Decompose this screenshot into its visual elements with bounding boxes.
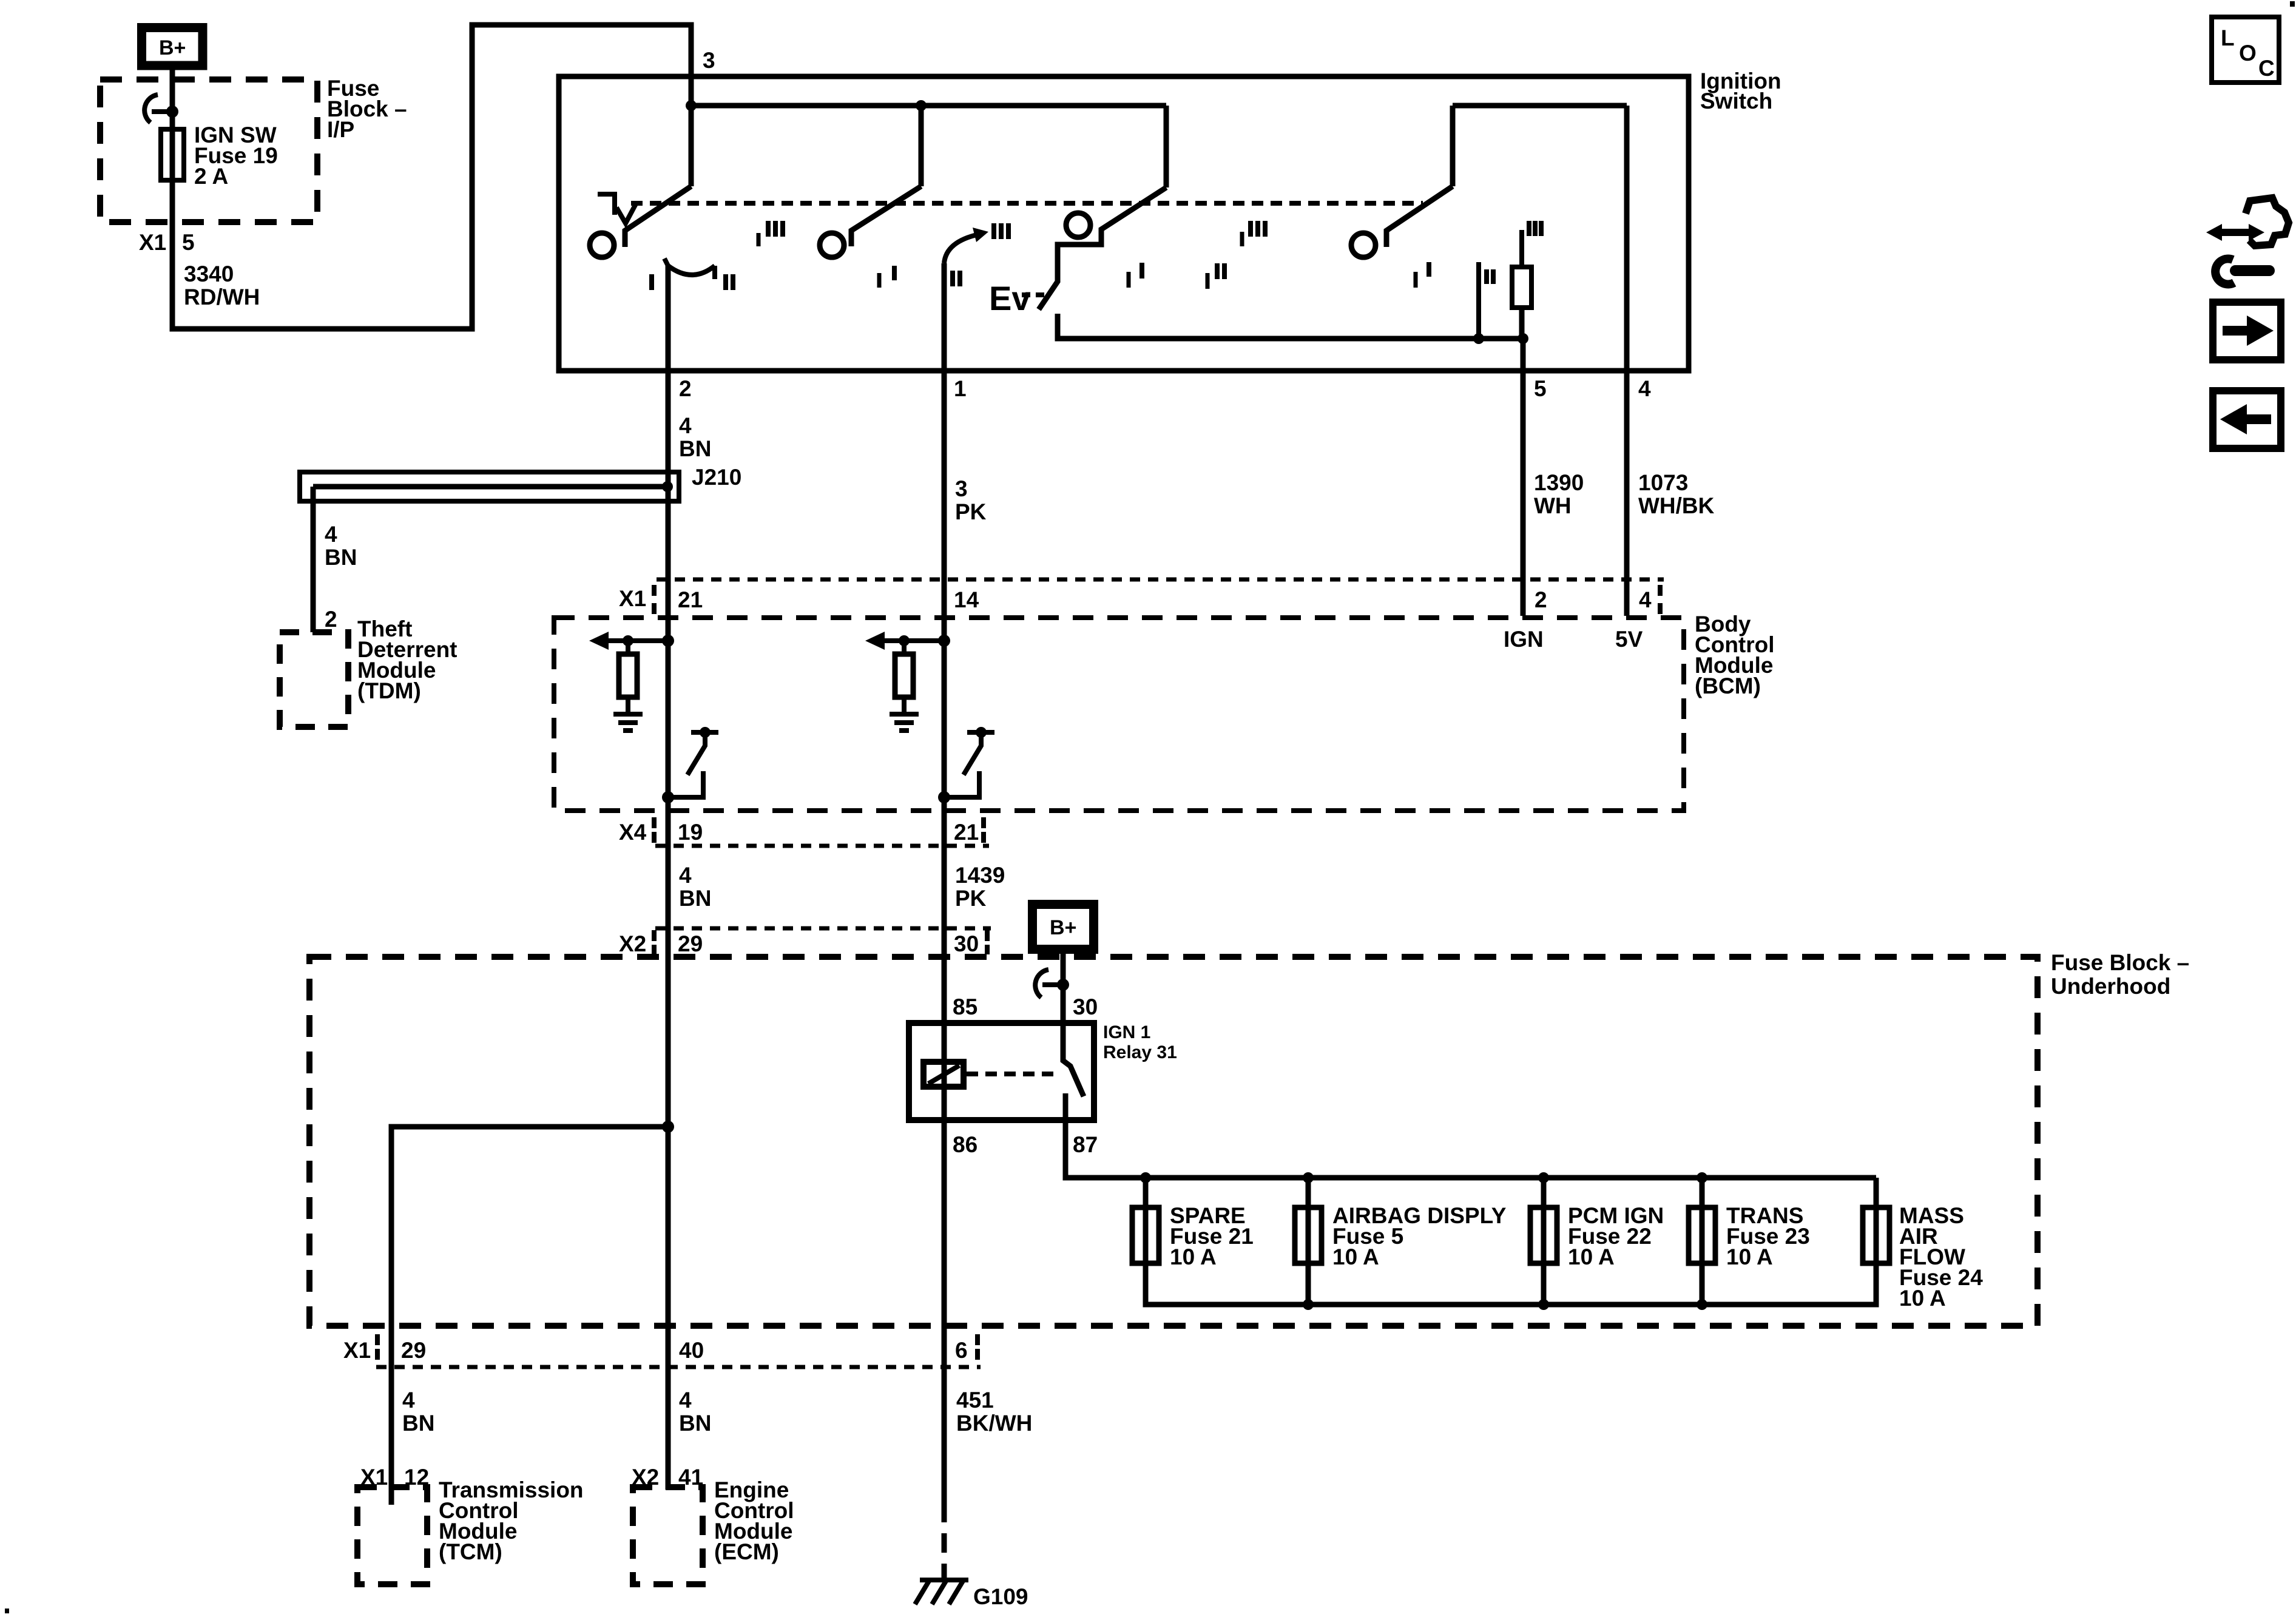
wire fuse 22 feed — [1541, 1178, 1547, 1305]
svg-text:21: 21 — [954, 820, 979, 845]
node junction switch2 feed — [916, 100, 927, 111]
connector label X1 pin 5 — [139, 230, 195, 255]
svg-text:BN: BN — [325, 545, 357, 570]
position ticks II (S2) — [953, 271, 960, 286]
svg-text:4: 4 — [325, 522, 337, 547]
wire fuse 21 feed — [1143, 1178, 1149, 1305]
svg-text:4: 4 — [679, 413, 692, 438]
node fuse 5 output — [1303, 1299, 1314, 1310]
switch S3 feed wire — [1164, 106, 1169, 187]
wire resistor to bottom bus — [1519, 308, 1525, 339]
wire label 1390 WH (pin 5) — [1534, 470, 1584, 518]
key-lock symbol at S1 — [598, 194, 636, 223]
svg-text:40: 40 — [679, 1338, 704, 1363]
LOC legend box — [2212, 17, 2279, 83]
svg-text:30: 30 — [1073, 994, 1098, 1019]
svg-text:14: 14 — [954, 587, 979, 612]
wire fuse 24 feed — [1874, 1178, 1879, 1305]
position ticks I (S4) — [1416, 262, 1429, 288]
svg-text:21: 21 — [678, 587, 703, 612]
node fuse 23 tap — [1697, 1172, 1707, 1183]
svg-text:3: 3 — [703, 48, 715, 73]
wire label 4 BN (ECM) — [679, 1388, 711, 1436]
svg-text:Ev: Ev — [989, 279, 1031, 317]
label MASS AIR FLOW Fuse 24 10 A — [1899, 1203, 1983, 1311]
connector tick X1 right — [1658, 585, 1663, 614]
fuse IGN SW Fuse 19 2A — [161, 129, 184, 180]
wire label 3 PK (pin 1) — [955, 476, 987, 524]
svg-text:X4: X4 — [619, 820, 647, 845]
wire 451 BK/WH dashed to ground — [942, 1503, 947, 1581]
svg-text:87: 87 — [1073, 1132, 1098, 1157]
label PCM IGN Fuse 22 10 A — [1568, 1203, 1664, 1269]
signal ground (pin 14 circuit) — [890, 714, 919, 731]
svg-text:(BCM): (BCM) — [1695, 673, 1761, 698]
back-arrow legend box — [2213, 391, 2281, 448]
node junction pin3 bus — [686, 100, 697, 111]
relay IGN 1 Relay 31 box — [909, 1023, 1094, 1120]
label Engine Control Module (ECM) — [714, 1477, 794, 1564]
svg-text:5V: 5V — [1615, 627, 1643, 652]
clip connector below B+ — [1035, 970, 1069, 998]
BCM pull-up resistor (pin 14) — [895, 641, 913, 714]
svg-text:4: 4 — [679, 863, 692, 888]
wire ignition pin 1 (down from S2 arc) — [942, 263, 947, 1503]
wire fuse 23 output — [1700, 1263, 1705, 1305]
label Fuse Block - Underhood — [2051, 950, 2189, 999]
switch S3 blade (accessory stage) — [1039, 187, 1166, 309]
svg-text:2: 2 — [325, 607, 337, 632]
svg-text:10 A: 10 A — [1726, 1244, 1773, 1269]
mechanical linkage dashed line — [631, 201, 1423, 206]
svg-text:C: C — [2258, 56, 2275, 81]
wire branch to TCM — [391, 1127, 668, 1505]
node fuse 22 tap — [1538, 1172, 1549, 1183]
label Theft Deterrent Module (TDM) — [357, 616, 458, 703]
position ticks II (S4) — [1487, 269, 1493, 284]
relay switch blade — [1063, 1023, 1084, 1120]
forward-arrow legend box — [2213, 302, 2281, 360]
svg-text:29: 29 — [401, 1338, 426, 1363]
connector tick X1 bottom left — [375, 1334, 380, 1360]
svg-text:Relay 31: Relay 31 — [1103, 1042, 1177, 1062]
svg-text:X1: X1 — [139, 230, 166, 255]
position ticks I (S2) — [879, 266, 894, 288]
spring-return arc S2 with arrow — [944, 228, 988, 263]
BCM connector X1 strip line — [657, 578, 1664, 582]
wire fuse 22 output — [1541, 1263, 1547, 1305]
switch S4 pivot wire — [1450, 106, 1456, 186]
label TCM connector X1 12 — [360, 1465, 429, 1490]
wire B+ to relay pin 30 — [1061, 952, 1066, 1023]
position ticks III (S2) — [994, 223, 1008, 239]
wire label 4 BN (TCM) — [402, 1388, 434, 1436]
svg-text:BN: BN — [679, 886, 711, 911]
svg-text:(ECM): (ECM) — [714, 1539, 779, 1564]
position ticks III (S4) — [1529, 221, 1541, 236]
svg-text:WH: WH — [1534, 493, 1572, 518]
node branch junction — [662, 1121, 674, 1133]
switch S2 blade — [851, 186, 921, 246]
svg-text:(TCM): (TCM) — [439, 1539, 502, 1564]
svg-text:6: 6 — [955, 1338, 968, 1363]
vehicle-with-wrench icon — [2206, 198, 2289, 284]
transmission control module box — [357, 1487, 427, 1584]
wire ignition pin 5 — [1521, 339, 1526, 616]
svg-text:4: 4 — [1638, 376, 1651, 401]
detent arc S1 — [664, 258, 715, 279]
resistor inside ignition switch (S4 position III) — [1512, 267, 1531, 308]
relay dashed actuation link — [967, 1072, 1061, 1076]
svg-text:1390: 1390 — [1534, 470, 1584, 495]
wire fuse 5 output — [1306, 1263, 1311, 1305]
wire internal bus from pin 3 — [691, 103, 1166, 109]
label AIRBAG DISPLY Fuse 5 10 A — [1332, 1203, 1507, 1269]
svg-text:X1: X1 — [619, 586, 646, 611]
signal ground (pin 21 circuit) — [613, 714, 643, 731]
svg-text:BN: BN — [402, 1411, 434, 1436]
connector tick X1 bottom right — [975, 1334, 980, 1360]
fuse output bus — [1146, 1263, 1876, 1305]
switch S4 contact circle — [1351, 233, 1376, 257]
label Body Control Module (BCM) — [1695, 612, 1775, 698]
svg-text:5: 5 — [1534, 376, 1547, 401]
svg-text:3340: 3340 — [184, 262, 234, 286]
svg-text:Switch: Switch — [1700, 89, 1772, 113]
connector tick X4 right — [981, 817, 986, 843]
fuse block bottom X1 strip line — [376, 1365, 981, 1369]
switch S1 feed wire — [689, 106, 694, 186]
svg-text:10 A: 10 A — [1568, 1244, 1615, 1269]
svg-text:IGN: IGN — [1504, 627, 1544, 652]
svg-text:29: 29 — [678, 931, 703, 956]
svg-text:BN: BN — [679, 436, 711, 461]
svg-text:PK: PK — [955, 499, 987, 524]
label Transmission Control Module (TCM) — [439, 1477, 584, 1564]
fuse 24 MASS AIR FLOW — [1863, 1207, 1889, 1263]
position ticks II (S3) — [1207, 263, 1224, 289]
svg-text:86: 86 — [953, 1132, 977, 1157]
S3 output wire to internal bottom bus — [1058, 314, 1523, 339]
BCM internal output arrow (pin 21 circuit) — [589, 632, 674, 650]
wire 3340 RD/WH from fuse 19 to ignition switch pin 3 — [172, 25, 691, 329]
BCM connector X4 strip line — [655, 844, 989, 848]
connector tick X1 left — [652, 585, 657, 614]
svg-text:BN: BN — [679, 1411, 711, 1436]
svg-text:30: 30 — [954, 931, 979, 956]
svg-text:10 A: 10 A — [1899, 1286, 1946, 1311]
switch S1 blade — [625, 186, 691, 247]
svg-text:BK/WH: BK/WH — [956, 1411, 1032, 1436]
wire label 4 BN (pin 2) — [679, 413, 711, 461]
BCM internal output arrow (pin 14 circuit) — [865, 632, 950, 650]
label SPARE Fuse 21 10 A — [1170, 1203, 1254, 1269]
svg-text:19: 19 — [678, 820, 703, 845]
svg-text:(TDM): (TDM) — [357, 678, 421, 703]
label Ignition Switch — [1700, 69, 1781, 113]
page mark bottom left — [5, 1609, 9, 1613]
label Fuse Block - I/P — [327, 76, 407, 142]
label 3340 RD/WH — [184, 262, 260, 309]
BCM pull-up resistor (pin 21) — [619, 641, 637, 714]
BCM internal switch (pin 14 circuit) — [938, 727, 994, 803]
connector tick X2 right — [985, 930, 990, 954]
switch S4 top feed — [1453, 103, 1627, 109]
position III contact line (S4) — [1519, 230, 1524, 267]
node junction S4-II on bottom bus — [1473, 333, 1484, 344]
power symbol B+ (underhood feed) — [1033, 905, 1094, 950]
node fuse 23 output — [1697, 1299, 1707, 1310]
fuse 5 AIRBAG DISPLY — [1295, 1207, 1322, 1263]
svg-text:B+: B+ — [1050, 916, 1076, 939]
svg-text:451: 451 — [956, 1388, 994, 1413]
svg-text:B+: B+ — [159, 36, 186, 59]
connector tick X2 left — [652, 930, 657, 954]
wire fuse 23 feed — [1700, 1178, 1705, 1305]
connector tick X4 left — [652, 817, 657, 843]
svg-text:2 A: 2 A — [194, 164, 228, 189]
fuse block I/P dashed box — [100, 79, 317, 222]
svg-text:PK: PK — [955, 886, 987, 911]
svg-text:1439: 1439 — [955, 863, 1005, 888]
theft deterrent module box — [280, 632, 348, 727]
svg-text:G109: G109 — [973, 1584, 1028, 1609]
wire label 1439 PK — [955, 863, 1005, 911]
position II contact line (S4) — [1476, 262, 1481, 339]
wire label 4 BN (below X4) — [679, 863, 711, 911]
svg-text:L: L — [2221, 25, 2235, 50]
svg-text:10 A: 10 A — [1170, 1244, 1217, 1269]
svg-text:3: 3 — [955, 476, 968, 501]
wire 4 BN branch to TDM — [311, 487, 316, 632]
fuse 21 SPARE — [1132, 1207, 1159, 1263]
svg-text:5: 5 — [182, 230, 195, 255]
svg-text:Underhood: Underhood — [2051, 974, 2170, 999]
body control module box — [554, 618, 1684, 811]
page mark top right — [2290, 1, 2295, 7]
wire fuse 5 feed — [1306, 1178, 1311, 1305]
ground G109 symbol — [915, 1580, 968, 1604]
fuse 22 PCM IGN — [1530, 1207, 1557, 1263]
wire label 1073 WH/BK (pin 4) — [1638, 470, 1715, 518]
fuse 23 TRANS — [1689, 1207, 1715, 1263]
svg-text:4: 4 — [1639, 587, 1652, 612]
svg-text:WH/BK: WH/BK — [1638, 493, 1715, 518]
dashed link Ev to S3 lower blade — [1022, 292, 1044, 297]
node fuse 21 tap — [1140, 1172, 1151, 1183]
power symbol B+ (fuse block I/P feed) — [142, 28, 203, 66]
svg-text:O: O — [2239, 41, 2257, 66]
label ECM connector X2 41 — [632, 1465, 703, 1490]
svg-text:4: 4 — [402, 1388, 415, 1413]
fuse block X2 strip line — [655, 927, 991, 931]
svg-text:X2: X2 — [619, 931, 646, 956]
svg-text:1073: 1073 — [1638, 470, 1688, 495]
label IGN SW Fuse 19 2A — [194, 123, 278, 189]
switch S2 contact circle — [820, 233, 844, 257]
svg-text:I/P: I/P — [327, 117, 354, 142]
svg-text:2: 2 — [1535, 587, 1547, 612]
fuse block underhood box — [309, 957, 2038, 1326]
svg-text:1: 1 — [954, 376, 967, 401]
position ticks I (S3) — [1129, 263, 1142, 288]
wire ignition pin 4 — [1624, 106, 1630, 616]
switch S4 blade — [1386, 186, 1453, 247]
relay coil — [923, 1062, 964, 1087]
wire label 4 BN (TDM branch) — [325, 522, 357, 570]
svg-text:RD/WH: RD/WH — [184, 285, 260, 309]
BCM internal switch (pin 21 circuit) — [662, 727, 718, 803]
svg-text:2: 2 — [679, 376, 692, 401]
svg-text:4: 4 — [679, 1388, 692, 1413]
clip connector at fuse 19 — [144, 95, 178, 123]
switch S1 contact circle — [590, 233, 614, 257]
label TRANS Fuse 23 10 A — [1726, 1203, 1810, 1269]
position ticks III (S1) — [758, 221, 783, 246]
node fuse 22 output — [1538, 1299, 1549, 1310]
svg-text:X1: X1 — [343, 1338, 371, 1363]
splice J210 — [300, 472, 679, 501]
svg-text:85: 85 — [953, 994, 977, 1019]
label IGN 1 Relay 31 — [1103, 1022, 1177, 1062]
svg-text:J210: J210 — [692, 465, 741, 490]
switch S2 feed wire — [919, 106, 924, 186]
wire ignition pin 2 (down from S1 arc) — [666, 266, 671, 1490]
svg-text:Fuse Block –: Fuse Block – — [2051, 950, 2189, 975]
engine control module box — [633, 1487, 703, 1584]
position ticks II (S1) — [726, 274, 733, 290]
position ticks III (S3) — [1242, 221, 1265, 246]
node fuse 5 tap — [1303, 1172, 1314, 1183]
switch S3 contact circle — [1066, 213, 1090, 237]
ignition switch box — [559, 76, 1689, 371]
wire relay 87 to fuse bus — [1065, 1120, 1876, 1178]
svg-text:IGN 1: IGN 1 — [1103, 1022, 1150, 1042]
wire label 451 BK/WH — [956, 1388, 1032, 1436]
node junction S4-III on bottom bus — [1518, 333, 1528, 344]
svg-text:10 A: 10 A — [1332, 1244, 1379, 1269]
position tick I (S1) — [649, 274, 654, 290]
